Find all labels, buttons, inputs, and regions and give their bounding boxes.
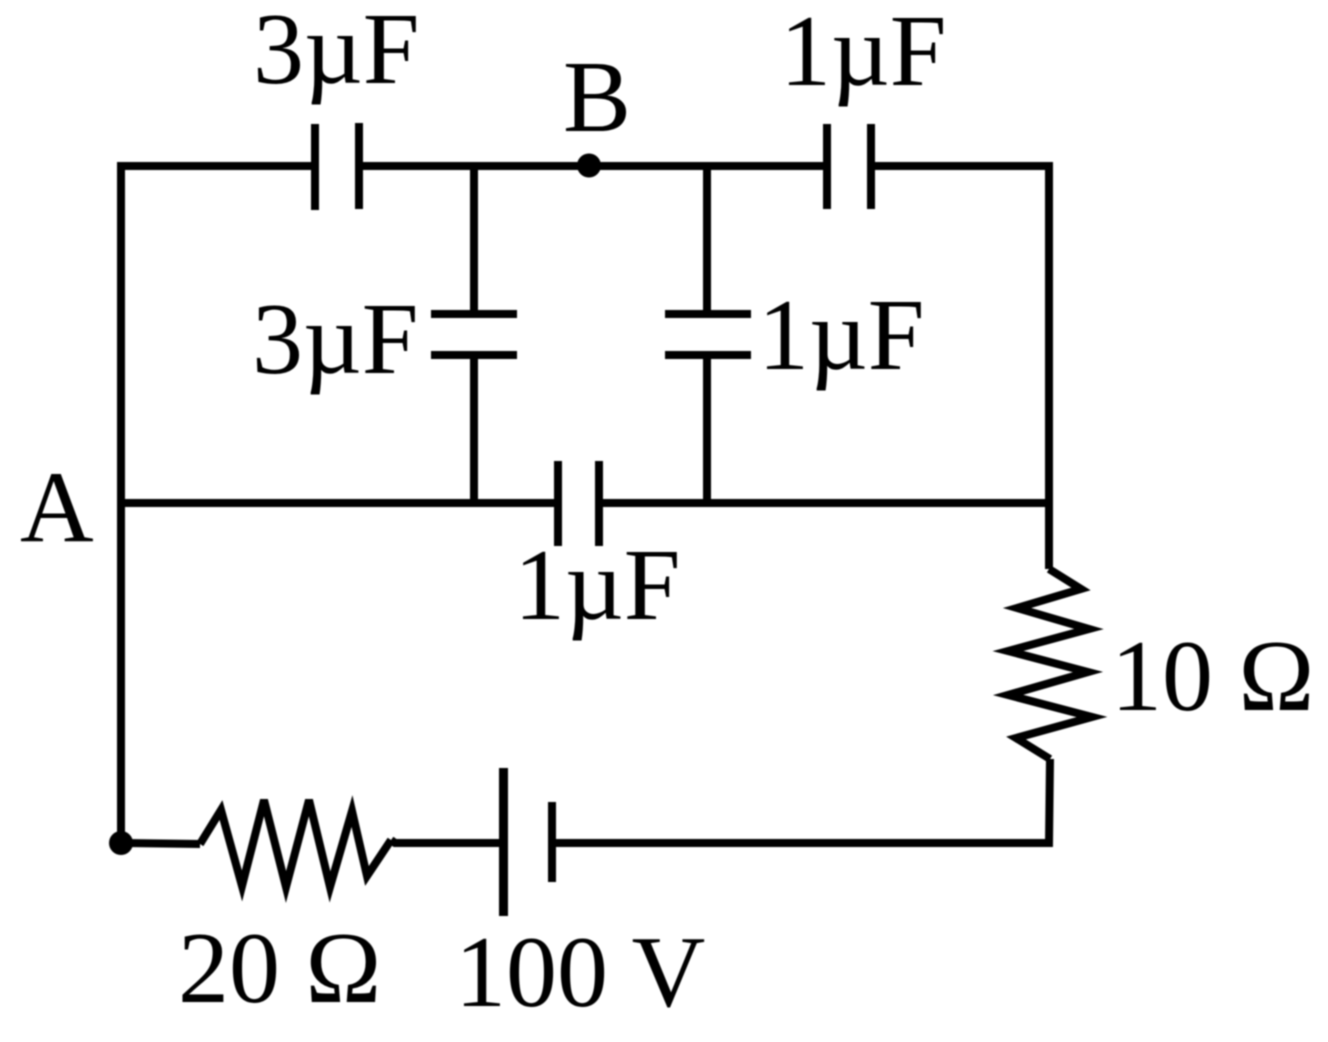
svg-text:20 Ω: 20 Ω: [178, 912, 381, 1025]
wire top rail right segment: [873, 162, 1049, 170]
wire inner-left vertical lower (C3 to middle rail): [470, 357, 478, 503]
wire middle rail right segment (C5 to right corner): [601, 503, 1049, 569]
svg-text:3µF: 3µF: [252, 283, 419, 396]
wire inner-right vertical upper (top rail to C4): [703, 166, 711, 312]
capacitor C2 1uF top-right: right plate: [867, 124, 875, 209]
wire left vertical (A branch, top-left corner down to bottom-left node): [117, 166, 125, 843]
node B junction dot: [577, 154, 601, 178]
wire top rail left segment: [117, 162, 313, 170]
capacitor C5 1uF middle: right plate: [595, 461, 603, 546]
capacitor C2 1uF top-right: left plate: [823, 124, 831, 209]
svg-text:100 V: 100 V: [455, 916, 705, 1029]
wire bottom rail left stub (node to R1): [121, 843, 200, 844]
svg-text:1µF: 1µF: [780, 0, 947, 108]
capacitor C4 1uF vertical-right: top plate: [665, 310, 751, 318]
battery V1 100V: short plate: [548, 802, 556, 882]
capacitor C4 1uF vertical-right: bottom plate: [665, 351, 751, 359]
capacitor C3 3uF vertical-left: bottom plate: [431, 351, 517, 359]
capacitor C5 1uF middle: left plate: [554, 461, 562, 546]
battery V1 100V: long plate: [499, 768, 508, 916]
wire middle rail left segment (node A to C5): [121, 499, 556, 507]
wire inner-left vertical upper (node B branch to C3): [470, 166, 478, 312]
svg-text:1µF: 1µF: [758, 279, 925, 392]
capacitor C1 3uF top-left: left plate: [311, 124, 319, 210]
svg-text:10 Ω: 10 Ω: [1111, 620, 1314, 733]
svg-text:B: B: [563, 41, 631, 154]
svg-text:A: A: [20, 451, 94, 564]
wire bottom rail between R1 and battery: [391, 840, 500, 843]
capacitor C3 3uF vertical-left: top plate: [431, 310, 517, 318]
bottom-left junction node dot: [109, 831, 133, 855]
capacitor C1 3uF top-left: right plate: [355, 123, 363, 209]
wire inner-right vertical lower (C4 to middle rail): [703, 357, 711, 503]
wire right vertical lower (R2 to bottom rail): [1045, 759, 1050, 843]
svg-text:1µF: 1µF: [514, 529, 681, 642]
wire bottom rail right segment (battery to right corner): [556, 839, 1049, 847]
wire top rail middle segment (between C1 and C2, through node B): [361, 162, 825, 170]
wire right vertical (top rail down through middle rail to R2): [1045, 162, 1053, 569]
resistor R2 10 Ohm (vertical zigzag): [1008, 569, 1092, 759]
svg-text:3µF: 3µF: [253, 0, 420, 106]
resistor R1 20 Ohm (horizontal zigzag): [200, 800, 391, 887]
